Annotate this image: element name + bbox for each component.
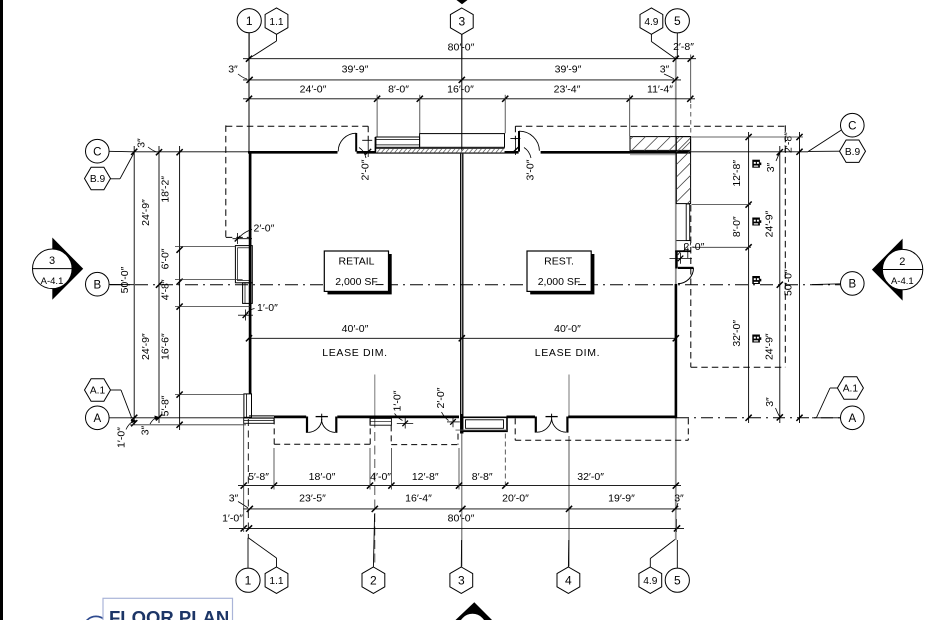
view title box: [103, 598, 233, 620]
svg-text:3″: 3″: [229, 492, 239, 504]
grid bubble 1 bottom leader: [247, 538, 249, 568]
svg-text:3: 3: [458, 15, 465, 29]
svg-text:39′-9″: 39′-9″: [342, 64, 369, 76]
door D2 restaurant north swing arc: [519, 131, 539, 151]
grid line 3 (below building): [461, 424, 463, 567]
svg-text:32′-0″: 32′-0″: [731, 320, 743, 347]
bottom extension line x=459: [458, 448, 460, 490]
door D5 east swing arc: [678, 268, 694, 284]
jog dim 1'-0" south leader: [395, 414, 403, 421]
west pier box lower: [243, 283, 253, 304]
section marker 3/A-4.1 left circle: [33, 249, 73, 289]
canopy dashed outline left return: [226, 236, 249, 238]
grid bubble A.1 right: [837, 377, 863, 399]
svg-text:B.9: B.9: [90, 174, 106, 185]
bottom dim row2 ticks: [247, 506, 678, 512]
svg-text:1′-0″: 1′-0″: [116, 427, 128, 448]
grid bubble B.9 left: [85, 167, 111, 189]
grid line 4.9 (full vertical, gray): [675, 56, 677, 540]
top extension line at x=377: [376, 95, 378, 137]
right extension line y=137: [692, 136, 804, 138]
grid bubble 1 bottom: [236, 568, 260, 592]
svg-text:18′-2″: 18′-2″: [160, 176, 172, 203]
double door D3 swing arcs: [308, 419, 322, 432]
svg-text:3′-0″: 3′-0″: [525, 159, 537, 180]
section cut arrow top (cropped): [457, 0, 468, 4]
svg-text:LEASE DIM.: LEASE DIM.: [535, 347, 600, 359]
entry canopy dashed rect (restaurant): [514, 418, 516, 440]
left dim row1 ticks: [131, 149, 137, 427]
svg-text:4.9: 4.9: [644, 17, 658, 28]
svg-text:2′-0″: 2′-0″: [435, 387, 447, 408]
svg-text:2,000 SF: 2,000 SF: [335, 276, 378, 288]
south wall segment restaurant e: [568, 415, 677, 418]
svg-text:A: A: [848, 413, 856, 425]
svg-text:1′-0″: 1′-0″: [222, 513, 243, 525]
svg-text:3″: 3″: [228, 64, 238, 76]
svg-text:23′-4″: 23′-4″: [554, 84, 581, 96]
svg-text:18′-0″: 18′-0″: [309, 471, 336, 483]
sheet border left edge: [0, 0, 3, 620]
east wall jog vertical: [675, 251, 677, 269]
svg-text:24′-9″: 24′-9″: [764, 333, 776, 360]
bottom extension line x=243.7: [243, 424, 245, 533]
door D1 retail north swing arc: [338, 133, 356, 151]
left dim leader 1'-0" bottom: [126, 421, 133, 429]
svg-text:A.1: A.1: [843, 384, 859, 395]
svg-text:2: 2: [370, 574, 377, 588]
grid bubble 4 bottom: [557, 567, 580, 593]
jog dim 2'-0" south leader: [442, 412, 449, 421]
storefront window box B (north): [420, 134, 505, 148]
left dim row3 line (18'-2"...5'-8"): [179, 146, 181, 430]
top dim row3 ticks: [246, 96, 694, 102]
svg-text:B: B: [848, 279, 856, 291]
grid line 1 (below building, dashed): [247, 419, 249, 538]
parapet hatched wall (north-east horizontal band): [630, 137, 691, 151]
top extension line at x=420: [419, 95, 421, 134]
grid bubble 3 bottom: [450, 567, 473, 593]
south wall west thin storefront: [249, 415, 274, 417]
svg-text:12′-8″: 12′-8″: [731, 160, 743, 187]
left dim leader 3" bottom: [150, 418, 156, 424]
double door D3 center mark: [316, 416, 328, 418]
top dim row2 line (3",39'-9",39'-9",3"): [243, 79, 681, 81]
svg-text:RETAIL: RETAIL: [339, 255, 375, 267]
keynote symbol 2: [752, 218, 760, 226]
grid line 2 (inside building): [374, 375, 376, 418]
grid bubble A.1 left leader: [111, 389, 122, 391]
bottom extension line x=274: [273, 448, 275, 490]
room label box REST shadow: [530, 254, 594, 294]
grid bubble A.1 right leader: [830, 387, 839, 389]
south wall segment restaurant w: [507, 415, 536, 418]
top dim row1 ticks: [246, 56, 694, 62]
svg-text:5′-8″: 5′-8″: [160, 395, 172, 416]
svg-text:32′-0″: 32′-0″: [577, 471, 604, 483]
room label box REST: [527, 251, 591, 291]
grid bubble 4.9 top leader: [650, 34, 652, 41]
bottom dim row2 line (3",23'-5",16'-4",20',19'-9",3"): [243, 508, 681, 510]
north wall west segment: [248, 151, 338, 154]
bottom dim row1 ticks: [241, 483, 679, 489]
left extension line y=246.4: [175, 245, 235, 247]
svg-text:3″: 3″: [764, 397, 776, 407]
top dim leader 3" left: [238, 74, 247, 79]
grid bubble A left: [86, 406, 110, 430]
svg-text:LEASE DIM.: LEASE DIM.: [322, 347, 387, 359]
south wall segment w of retail door: [274, 415, 306, 418]
svg-text:A: A: [93, 413, 101, 425]
top extension line at x=505: [504, 95, 506, 134]
svg-text:A.1: A.1: [90, 386, 106, 397]
grid line 1 (top segment): [248, 33, 250, 152]
grid bubble 1.1 bottom: [265, 567, 288, 593]
lease dim line retail: [249, 337, 462, 339]
svg-text:5′-8″: 5′-8″: [248, 471, 269, 483]
bottom dim leader 3" left-bottom: [238, 502, 248, 509]
left extension line y=394.6: [175, 394, 244, 396]
grid bubble 1.1 top leader: [276, 34, 278, 41]
left dim row1 line (50'-0"): [133, 146, 135, 425]
grid bubble 4.9 bottom: [639, 567, 662, 593]
top extension line at x=630: [629, 95, 631, 137]
svg-text:40′-0″: 40′-0″: [554, 323, 581, 335]
keynote symbol 1: [752, 160, 760, 168]
grid B dash inside retail box: [376, 284, 384, 286]
grid bubble 5 top leader: [676, 33, 678, 59]
left extension line y=424.8: [130, 424, 246, 426]
left dim leader 3" top: [148, 147, 157, 152]
top dim row2 ticks: [247, 77, 679, 83]
grid bubble C right: [841, 113, 865, 137]
svg-text:6′-0″: 6′-0″: [160, 248, 172, 269]
grid bubble B.9 right leader: [808, 150, 841, 152]
right dim rowC ticks: [796, 134, 802, 421]
left dim row2 line (3",24'-9",24'-9",3"): [158, 146, 160, 423]
svg-text:39′-9″: 39′-9″: [555, 64, 582, 76]
left extension line y=279.4: [175, 278, 243, 280]
right dim rowA ticks: [746, 134, 752, 421]
top extension line at x=691 (grid5): [690, 55, 692, 104]
keynote symbol 4: [752, 335, 760, 343]
north wall stub between door and storefront: [357, 151, 376, 154]
svg-text:2′-0″: 2′-0″: [360, 159, 372, 180]
grid bubble B.9 right: [840, 140, 866, 162]
double door D3 retail south left leaf: [306, 417, 308, 433]
canopy dashed outline right inner vertical: [690, 205, 692, 367]
north wall stub east of storefront: [505, 151, 519, 154]
section marker 2/A-4.1 right triangle: [872, 239, 903, 301]
right dim leader 3" bottom right: [776, 408, 780, 417]
svg-text:23′-5″: 23′-5″: [299, 492, 326, 504]
grid line B centerline: [110, 284, 840, 286]
canopy dashed outline right bottom: [691, 366, 786, 368]
svg-text:11′-4″: 11′-4″: [647, 84, 673, 96]
grid bubble 5 bottom: [665, 568, 689, 592]
svg-text:24′-9″: 24′-9″: [140, 333, 152, 360]
storefront window box A inner line: [376, 139, 420, 141]
grid line A (east segment): [677, 417, 840, 419]
canopy dashed outline top east: [515, 125, 785, 127]
bottom extension line x=505.3: [504, 434, 506, 490]
keynote symbol 3: [752, 276, 760, 284]
double door D3 retail south right leaf: [335, 417, 337, 433]
svg-text:1′-0″: 1′-0″: [392, 390, 404, 411]
svg-text:4′-8″: 4′-8″: [160, 279, 172, 300]
svg-text:3″: 3″: [136, 138, 148, 148]
east wall window head line: [676, 240, 690, 242]
room label box RETAIL shadow: [328, 254, 392, 294]
grid bubble B left: [86, 272, 110, 296]
svg-text:2′-0″: 2′-0″: [254, 223, 275, 235]
svg-text:24′-0″: 24′-0″: [300, 84, 327, 96]
lease dim line restaurant: [462, 337, 676, 339]
double door D4 swing arcs: [537, 419, 552, 432]
grid line 4 (inside building): [568, 375, 570, 418]
grid line C (west segment): [134, 151, 249, 153]
double door D4 center mark: [546, 416, 558, 418]
double door D4 restaurant south right leaf: [566, 417, 568, 433]
svg-text:20′-0″: 20′-0″: [502, 492, 529, 504]
svg-text:8′-0″: 8′-0″: [388, 84, 409, 96]
canopy dashed outline top west: [226, 125, 368, 127]
svg-text:2,000 SF: 2,000 SF: [538, 276, 581, 288]
top dim row1 line (80'-0" / 2'-8"): [243, 58, 696, 60]
section marker 3/A-4.1 left triangle: [52, 238, 83, 300]
right dim rowB ticks: [777, 149, 783, 420]
grid bubble 4.9 bottom leader: [649, 559, 651, 567]
right extension line y=247.3: [693, 246, 751, 248]
grid bubble C left leader: [109, 150, 134, 153]
jog dim 2'-0" west pier leader: [240, 230, 252, 237]
svg-text:4.9: 4.9: [643, 576, 657, 587]
grid bubble 4 bottom leader: [567, 540, 569, 567]
storefront sill hatch strip (north): [376, 147, 505, 149]
storefront window box A (north): [376, 137, 420, 147]
view title circle (cropped): [83, 616, 108, 620]
grid bubble B left leader: [109, 283, 134, 285]
bottom dim row3 line (1'-0", 80'-0"): [229, 527, 684, 529]
svg-text:3″: 3″: [674, 492, 684, 504]
svg-text:1: 1: [246, 14, 253, 28]
svg-text:16′-0″: 16′-0″: [447, 84, 474, 96]
top dim leader 3" right: [664, 74, 674, 79]
svg-text:2′-8″: 2′-8″: [673, 41, 694, 53]
right dim rowB line (3",24'-9",24'-9",3"): [779, 146, 781, 423]
grid bubble 3 top: [450, 8, 473, 34]
svg-text:1: 1: [245, 574, 252, 588]
svg-text:C: C: [93, 146, 101, 158]
svg-text:A-4.1: A-4.1: [41, 276, 64, 287]
grid bubble 3 bottom leader: [460, 540, 462, 567]
svg-text:A-4.1: A-4.1: [891, 276, 914, 287]
grid bubble 2 bottom: [362, 567, 385, 593]
jog dim 1'-0" west leader: [247, 309, 255, 314]
svg-text:19′-9″: 19′-9″: [608, 492, 635, 504]
grid line 3 (top segment): [461, 35, 463, 151]
right dim rowC line (2'-8",50'-0"): [799, 132, 801, 423]
jog dim 2'-0" top-left leader: [359, 148, 366, 159]
grid bubble 5 bottom leader: [676, 540, 678, 568]
south wall restaurant window: [462, 417, 507, 431]
svg-text:C: C: [848, 120, 856, 132]
svg-text:2: 2: [899, 256, 905, 268]
double door D4 restaurant south left leaf: [535, 417, 537, 433]
svg-text:5: 5: [674, 14, 681, 28]
jog dim 2'-0" east leader: [678, 251, 684, 256]
east wall window glazing: [685, 204, 687, 241]
right dim rowA line (12'-8",8'-0",32'-0"): [748, 132, 750, 423]
grid bubble 2 bottom leader: [373, 514, 374, 567]
svg-text:FLOOR PLAN: FLOOR PLAN: [109, 607, 229, 620]
west pier box upper: [235, 246, 252, 283]
svg-text:3″: 3″: [140, 425, 152, 435]
grid bubble A right: [841, 406, 865, 430]
grid bubble 5 top: [665, 9, 689, 33]
left dim row2 ticks: [156, 149, 162, 420]
left extension line y=306.6: [175, 306, 250, 308]
svg-text:40′-0″: 40′-0″: [342, 323, 369, 335]
bottom dim row3 ticks: [241, 525, 680, 531]
svg-text:16′-6″: 16′-6″: [160, 333, 172, 360]
south wall segment retail: [337, 415, 459, 418]
grid bubble B.9 left leader: [109, 178, 120, 180]
grid bubble B right: [841, 272, 865, 296]
svg-text:2′-8″: 2′-8″: [783, 132, 795, 153]
grid B dash inside rest box: [578, 284, 586, 286]
canopy dashed outline left vertical: [225, 125, 227, 237]
svg-text:B: B: [93, 279, 101, 291]
grid line 4 (below building): [568, 436, 570, 567]
canopy dashed outline right vertical: [784, 125, 786, 367]
south wall restaurant window sill line: [456, 429, 508, 431]
grid bubble 1 top leader: [248, 33, 250, 59]
svg-text:5: 5: [674, 574, 681, 588]
svg-text:12′-8″: 12′-8″: [412, 471, 439, 483]
south wall window west (sill box): [244, 418, 274, 423]
grid bubble 4.9 top: [640, 8, 663, 34]
right dim leader 3" top right: [776, 153, 780, 162]
partition wall at grid 3 (west line): [460, 154, 462, 434]
room label box RETAIL: [324, 251, 388, 291]
svg-text:3: 3: [458, 574, 465, 588]
svg-text:80′-0″: 80′-0″: [448, 513, 475, 525]
svg-text:24′-9″: 24′-9″: [140, 199, 152, 226]
bottom dim leader 3" right-bottom: [676, 503, 678, 508]
section marker 2/A-4.1 right circle: [882, 249, 922, 289]
east wall lower segment: [675, 284, 678, 418]
grid line 2 (below building): [374, 419, 376, 567]
svg-text:3″: 3″: [660, 64, 670, 76]
svg-text:1.1: 1.1: [269, 17, 283, 28]
grid bubble 1 top: [237, 9, 261, 33]
parapet hatched wall (east vertical band): [676, 137, 690, 204]
jog dim 3'-0" top-right leader: [524, 148, 531, 159]
east wall jog top edge: [675, 250, 690, 252]
south wall window mid retail (sill box): [370, 418, 391, 425]
svg-text:2′-0″: 2′-0″: [684, 241, 705, 253]
grid bubble A.1 left: [85, 379, 111, 401]
bottom extension line x=676: [676, 519, 678, 532]
lease dim ticks: [246, 335, 679, 341]
svg-text:80′-0″: 80′-0″: [448, 42, 475, 54]
grid bubble 1.1 bottom leader: [276, 558, 278, 567]
svg-text:50′-0″: 50′-0″: [783, 269, 795, 296]
bottom dim row1 line (5'-8"...32'-0"): [238, 485, 681, 487]
bottom extension line x=391.4: [390, 448, 392, 490]
svg-text:24′-9″: 24′-9″: [764, 210, 776, 237]
svg-text:REST.: REST.: [544, 255, 574, 267]
left dim row3 ticks: [177, 149, 183, 428]
svg-text:1′-0″: 1′-0″: [257, 302, 278, 314]
partition wall at grid 3 (east line): [462, 154, 464, 434]
svg-text:8′-8″: 8′-8″: [472, 471, 493, 483]
bottom extension line x=370: [369, 448, 371, 490]
west wall upper segment: [249, 151, 252, 394]
grid line A (west segment): [130, 417, 249, 419]
top dim row3 line (24',8',16',23'-4",11'-4"): [243, 98, 695, 100]
entry canopy dashed rect (retail window): [390, 425, 392, 444]
grid bubble A right leader: [812, 417, 841, 419]
svg-text:3″: 3″: [765, 162, 777, 172]
grid bubble A left leader: [109, 417, 134, 419]
svg-text:4′-0″: 4′-0″: [370, 471, 391, 483]
north arrow (cropped): [456, 602, 493, 620]
west wall window (south end): [244, 394, 252, 417]
door D5 east wall leaf: [678, 267, 694, 269]
svg-text:50′-0″: 50′-0″: [119, 266, 131, 293]
svg-text:1.1: 1.1: [269, 576, 283, 587]
door D1 retail north leaf: [355, 133, 357, 152]
grid bubble C left: [86, 139, 110, 163]
svg-text:B.9: B.9: [845, 147, 861, 158]
grid bubble B right leader: [812, 283, 841, 286]
svg-text:8′-0″: 8′-0″: [731, 216, 743, 237]
svg-text:4: 4: [565, 574, 572, 588]
svg-text:3: 3: [49, 255, 55, 267]
grid bubble 3 top leader: [461, 34, 463, 58]
north wall east segment: [541, 151, 691, 154]
entry canopy dashed rect (retail door): [273, 418, 275, 444]
grid line C (east segment): [691, 151, 808, 153]
grid bubble 1.1 top: [265, 8, 288, 34]
door D2 restaurant north leaf: [518, 131, 520, 152]
right extension line y=204.6: [692, 204, 752, 206]
grid bubble C right leader: [808, 130, 841, 151]
svg-text:16′-4″: 16′-4″: [405, 492, 432, 504]
